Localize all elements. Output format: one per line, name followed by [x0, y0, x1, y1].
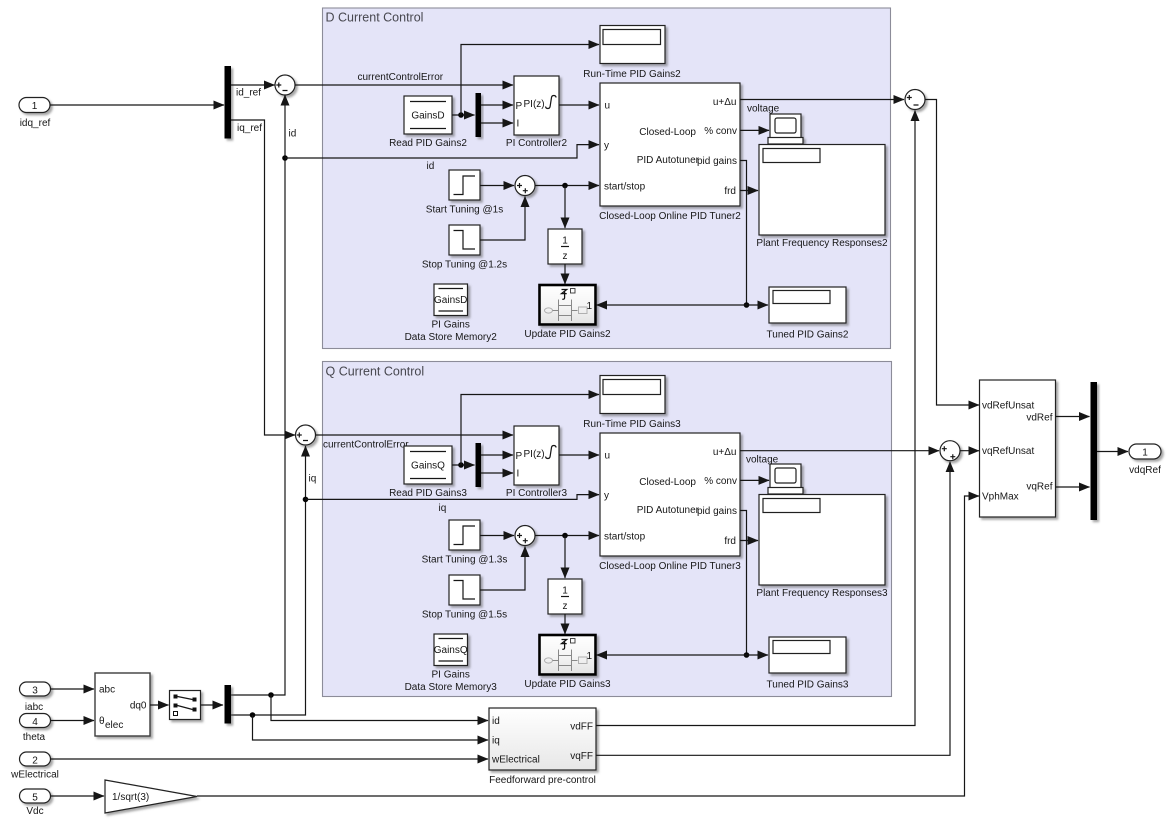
svg-text:I: I	[517, 119, 520, 130]
wire I gain Q	[481, 472, 513, 474]
svg-text:u+Δu: u+Δu	[713, 447, 737, 458]
wire to Run-Time display D	[461, 45, 599, 116]
svg-text:voltage: voltage	[747, 104, 780, 115]
svg-text:Closed-Loop Online PID Tuner3: Closed-Loop Online PID Tuner3	[599, 561, 741, 572]
gain 1/sqrt(3)	[105, 780, 197, 813]
wire frd to plant D	[740, 190, 758, 192]
block PI Controller2	[506, 76, 568, 149]
svg-text:5: 5	[32, 793, 38, 804]
wire pid gains D	[740, 161, 747, 306]
svg-text:iq: iq	[439, 503, 447, 514]
wire pid gains Q	[740, 511, 747, 656]
svg-text:1/sqrt(3): 1/sqrt(3)	[112, 792, 149, 803]
svg-text:start/stop: start/stop	[604, 182, 646, 193]
svg-text:1: 1	[562, 236, 568, 247]
demux bar PI gains Q	[476, 443, 482, 487]
svg-text:PI Gains: PI Gains	[432, 320, 470, 331]
svg-text:id: id	[427, 161, 435, 172]
input port 2 wElectrical	[10, 752, 59, 781]
svg-text:Data Store Memory2: Data Store Memory2	[405, 332, 498, 343]
svg-text:u: u	[605, 451, 611, 462]
block Stop Tuning @1.5s	[422, 575, 507, 621]
mux bar vdqRef	[1091, 382, 1098, 520]
sum junction S6 start/stop Q	[515, 526, 535, 546]
sum junction S4 vq	[940, 441, 960, 461]
svg-text:y: y	[604, 141, 609, 152]
svg-text:z: z	[563, 251, 568, 262]
wire sum to start/stop port Q	[535, 535, 599, 537]
wire iq feedback vertical	[231, 446, 316, 715]
svg-text:id_ref: id_ref	[236, 88, 261, 99]
wire pid gains to update Q	[597, 654, 747, 656]
svg-text:vqRef: vqRef	[1026, 482, 1052, 493]
svg-text:wElectrical: wElectrical	[10, 770, 59, 781]
svg-text:2: 2	[32, 756, 38, 767]
svg-text:GainsD: GainsD	[411, 111, 444, 122]
block Read PID Gains2	[389, 96, 467, 149]
svg-text:3: 3	[32, 686, 38, 697]
wire vqRef to mux	[1056, 486, 1090, 488]
wire id_ref	[231, 85, 275, 99]
wire I gain D	[481, 122, 513, 124]
svg-text:pid gains: pid gains	[697, 506, 737, 517]
input port 3 iabc	[20, 682, 51, 713]
node after GainsD	[458, 112, 464, 118]
wire selector to demux bar	[201, 704, 224, 706]
svg-text:Start Tuning @1.3s: Start Tuning @1.3s	[422, 555, 508, 566]
svg-text:start/stop: start/stop	[604, 532, 646, 543]
svg-text:Data Store Memory3: Data Store Memory3	[405, 682, 498, 693]
svg-text:Read PID Gains3: Read PID Gains3	[389, 488, 467, 499]
svg-text:Closed-Loop Online PID Tuner2: Closed-Loop Online PID Tuner2	[599, 211, 741, 222]
node start/stop junction D	[562, 183, 568, 189]
svg-text:wElectrical: wElectrical	[491, 755, 540, 766]
svg-text:vqFF: vqFF	[570, 751, 593, 762]
wire theta to theta port	[51, 720, 95, 722]
svg-text:P: P	[516, 101, 523, 112]
wire currentControlError Q	[316, 435, 514, 451]
block Plant Frequency Responses3	[756, 495, 888, 600]
svg-text:P: P	[516, 451, 523, 462]
wire vd sum to limiter	[925, 100, 979, 406]
wire iq to tuner y port Q	[306, 495, 600, 500]
svg-text:vdFF: vdFF	[570, 722, 593, 733]
block PI Controller3	[506, 426, 568, 499]
wire Vdc to gain	[51, 795, 105, 797]
svg-text:PI Controller2: PI Controller2	[506, 138, 568, 149]
svg-text:theta: theta	[23, 732, 46, 743]
wire vqFF to vq sum	[596, 462, 950, 756]
scope voltage D	[768, 114, 803, 144]
svg-text:abc: abc	[99, 685, 115, 696]
wire u+du D to vd sum	[740, 100, 904, 115]
sum junction S1 (id error)	[275, 75, 295, 95]
svg-text:Closed-Loop: Closed-Loop	[639, 477, 696, 488]
block Update PID Gains3	[524, 635, 611, 690]
svg-text:% conv: % conv	[704, 476, 737, 487]
svg-text:Read PID Gains2: Read PID Gains2	[389, 138, 467, 149]
wire start to sum Q	[480, 535, 514, 537]
block Run-Time PID Gains2	[583, 26, 681, 81]
svg-text:vdqRef: vdqRef	[1129, 465, 1161, 476]
wire sum to start/stop port D	[535, 185, 599, 187]
svg-text:1: 1	[32, 101, 38, 112]
area Q Current Control	[323, 362, 892, 697]
block Unit Delay 1/z Q	[548, 579, 582, 614]
svg-text:PI(z): PI(z)	[524, 449, 545, 460]
svg-text:Vdc: Vdc	[26, 806, 43, 817]
block Closed-Loop Online PID Tuner2	[599, 83, 741, 222]
svg-text:GainsQ: GainsQ	[411, 461, 445, 472]
sum junction S2 (iq error)	[296, 425, 316, 445]
wire PI out to tuner u D	[559, 104, 599, 106]
wire % conv to scope D	[740, 129, 769, 131]
demux bar id iq	[225, 685, 232, 724]
svg-text:y: y	[604, 491, 609, 502]
svg-text:PID Autotuner: PID Autotuner	[637, 155, 700, 166]
wire to Run-Time display Q	[461, 395, 599, 466]
svg-text:GainsQ: GainsQ	[434, 645, 468, 656]
svg-text:Closed-Loop: Closed-Loop	[639, 127, 696, 138]
output port 1 vdqRef	[1129, 444, 1161, 476]
svg-text:frd: frd	[724, 536, 736, 547]
input port 4 theta	[20, 714, 51, 744]
block Update PID Gains2	[524, 285, 611, 340]
demux bar PI gains D	[476, 93, 482, 137]
input port 5 Vdc	[20, 789, 51, 817]
wire iabc to abc port	[51, 688, 95, 690]
wire GainsQ to PI demux	[452, 464, 475, 466]
block PI Gains Data Store Memory2	[405, 284, 498, 343]
wire % conv to scope Q	[740, 479, 769, 481]
svg-text:vqRefUnsat: vqRefUnsat	[982, 446, 1034, 457]
svg-text:Tuned PID Gains2: Tuned PID Gains2	[767, 330, 849, 341]
svg-text:Tuned PID Gains3: Tuned PID Gains3	[767, 680, 849, 691]
wire iq to feedforward	[253, 715, 489, 740]
wire stop to sum Q	[480, 547, 525, 591]
wire pid gains to tuned display Q	[747, 654, 769, 656]
svg-text:Plant Frequency Responses2: Plant Frequency Responses2	[756, 238, 888, 249]
node id to feedforward junction	[268, 692, 274, 698]
svg-text:currentControlError: currentControlError	[323, 440, 409, 451]
node start/stop junction Q	[562, 533, 568, 539]
block Closed-Loop Online PID Tuner3	[599, 433, 741, 572]
wire pid gains to tuned display D	[747, 304, 769, 306]
wire unit delay to update D	[564, 264, 566, 284]
svg-text:iq: iq	[309, 474, 317, 485]
block limiter vdRefUnsat/vqRefUnsat	[980, 380, 1056, 517]
svg-text:Run-Time PID Gains2: Run-Time PID Gains2	[583, 69, 681, 80]
block Unit Delay 1/z D	[548, 229, 582, 264]
svg-text:1: 1	[1142, 448, 1148, 459]
node id junction to y-port	[282, 155, 288, 161]
svg-text:VphMax: VphMax	[982, 492, 1019, 503]
block Stop Tuning @1.2s	[422, 225, 507, 271]
wire id feedback vertical	[231, 95, 296, 695]
wire currentControlError D	[295, 72, 513, 85]
svg-text:GainsD: GainsD	[434, 295, 467, 306]
wire gain to VphMax	[197, 496, 979, 796]
block Tuned PID Gains2	[767, 287, 849, 341]
svg-text:pid gains: pid gains	[697, 156, 737, 167]
svg-text:1: 1	[587, 651, 593, 662]
block Start Tuning @1.3s	[422, 520, 508, 566]
wire wElectrical to feedforward	[51, 758, 489, 760]
svg-text:currentControlError: currentControlError	[358, 72, 444, 83]
wire idq_ref to demux	[50, 104, 224, 106]
svg-text:u: u	[605, 101, 611, 112]
svg-text:PI Controller3: PI Controller3	[506, 488, 568, 499]
wire vdRef to mux	[1056, 416, 1090, 418]
svg-text:1: 1	[587, 301, 593, 312]
svg-text:Feedforward pre-control: Feedforward pre-control	[489, 775, 596, 786]
block Feedforward pre-control	[489, 708, 596, 786]
block abc to dq0 transform	[95, 673, 150, 736]
svg-text:Plant Frequency Responses3: Plant Frequency Responses3	[756, 588, 888, 599]
svg-text:dq0: dq0	[130, 701, 147, 712]
wire GainsD to PI demux	[452, 114, 475, 116]
wire u+du Q to vq sum	[740, 451, 939, 466]
svg-text:D Current Control: D Current Control	[326, 11, 424, 25]
svg-text:% conv: % conv	[704, 126, 737, 137]
svg-text:Start Tuning @1s: Start Tuning @1s	[426, 205, 503, 216]
svg-text:iq: iq	[492, 736, 500, 747]
block Start Tuning @1s	[426, 170, 503, 216]
wire pid gains to update D	[597, 304, 747, 306]
svg-text:elec: elec	[105, 720, 123, 731]
svg-text:PI Gains: PI Gains	[432, 670, 470, 681]
wire start to sum D	[480, 185, 514, 187]
wire dq0 to selector	[150, 704, 169, 706]
wire vq sum to limiter	[960, 450, 979, 452]
svg-text:Stop Tuning @1.5s: Stop Tuning @1.5s	[422, 610, 507, 621]
svg-text:PI(z): PI(z)	[524, 99, 545, 110]
node iq junction to y-port	[303, 497, 309, 503]
wire vdFF to vd sum	[596, 111, 915, 726]
wire iq_ref	[231, 120, 295, 435]
svg-text:idq_ref: idq_ref	[20, 118, 51, 129]
node after GainsQ	[458, 462, 464, 468]
svg-text:iq_ref: iq_ref	[237, 123, 262, 134]
svg-text:iabc: iabc	[25, 702, 43, 713]
svg-text:Run-Time PID Gains3: Run-Time PID Gains3	[583, 419, 681, 430]
block Plant Frequency Responses2	[756, 145, 888, 250]
svg-text:Update PID Gains2: Update PID Gains2	[524, 329, 611, 340]
svg-text:u+Δu: u+Δu	[713, 97, 737, 108]
wire junction down to unit delay D	[564, 186, 566, 229]
block Read PID Gains3	[389, 446, 467, 499]
block Run-Time PID Gains3	[583, 376, 681, 431]
svg-text:id: id	[289, 129, 297, 140]
svg-text:PID Autotuner: PID Autotuner	[637, 505, 700, 516]
wire PI out to tuner u Q	[559, 454, 599, 456]
block Tuned PID Gains3	[767, 637, 849, 691]
svg-text:Stop Tuning @1.2s: Stop Tuning @1.2s	[422, 260, 507, 271]
sum junction S3 vd	[905, 90, 925, 110]
wire id to feedforward	[271, 695, 488, 721]
svg-text:vdRef: vdRef	[1026, 413, 1052, 424]
svg-text:4: 4	[32, 717, 38, 728]
sum junction S5 start/stop D	[515, 176, 535, 196]
wire frd to plant Q	[740, 540, 758, 542]
svg-text:Q Current Control: Q Current Control	[326, 365, 425, 379]
demux bar idq_ref	[225, 66, 232, 139]
svg-text:id: id	[492, 716, 500, 727]
svg-text:z: z	[563, 601, 568, 612]
wire id to tuner y port	[285, 145, 599, 158]
scope voltage Q	[768, 464, 803, 494]
svg-text:I: I	[517, 469, 520, 480]
svg-text:1: 1	[562, 586, 568, 597]
block selector	[170, 691, 201, 720]
node pid gains junction Q	[744, 652, 750, 658]
wire junction down to unit delay Q	[564, 536, 566, 579]
area D Current Control	[323, 8, 891, 349]
svg-text:frd: frd	[724, 186, 736, 197]
node pid gains junction D	[744, 302, 750, 308]
wire P gain Q	[481, 454, 513, 456]
wire stop to sum D	[480, 197, 525, 241]
node iq to feedforward junction	[250, 712, 256, 718]
svg-text:Update PID Gains3: Update PID Gains3	[524, 679, 611, 690]
input port 1 idq_ref	[19, 98, 51, 130]
block PI Gains Data Store Memory3	[405, 634, 498, 693]
wire unit delay to update Q	[564, 614, 566, 634]
svg-text:vdRefUnsat: vdRefUnsat	[982, 401, 1034, 412]
wire P gain D	[481, 104, 513, 106]
wire mux to output port	[1097, 451, 1128, 453]
